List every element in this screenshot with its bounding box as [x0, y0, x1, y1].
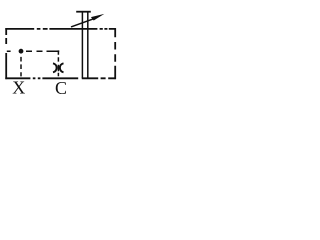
svg-text:C: C — [55, 78, 67, 98]
junction dot — [19, 49, 24, 54]
enclosure left edge (chain line) — [5, 28, 7, 79]
tappet right stem — [87, 12, 89, 79]
enclosure right edge (chain line) — [114, 28, 116, 79]
pilot line horizontal (dashed) from left edge to corner — [7, 50, 59, 52]
orifice right curve ( — [60, 63, 64, 72]
pilot X line vertical (dashed) — [20, 57, 22, 77]
tappet left stem — [81, 12, 83, 79]
enclosure top edge (chain line) — [5, 28, 116, 30]
svg-text:X: X — [12, 78, 25, 98]
pilot corner and vertical (dashed) down to orifice — [57, 50, 59, 76]
adjustability arrow shaft — [71, 19, 93, 27]
tappet cap bar (stroke limiter) — [76, 11, 91, 13]
enclosure bottom edge (chain line) — [5, 77, 116, 79]
orifice left curve ) — [53, 63, 57, 72]
arrowhead — [91, 14, 104, 21]
